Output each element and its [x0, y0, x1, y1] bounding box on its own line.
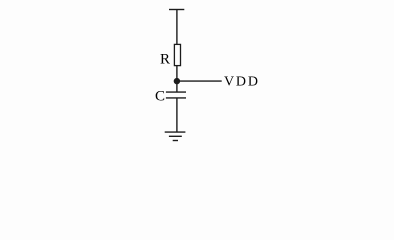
resistor R: [174, 44, 180, 65]
wire: capacitor bottom plate to ground: [176, 98, 178, 132]
node junction dot: [174, 78, 180, 84]
wire: terminal to resistor top: [176, 10, 178, 46]
capacitor C: [166, 92, 186, 98]
svg-text:R: R: [160, 51, 170, 67]
svg-text:VDD: VDD: [224, 75, 260, 90]
ground: [165, 132, 186, 140]
svg-text:C: C: [155, 89, 165, 105]
wire: node to VDD label: [177, 80, 222, 82]
wire: resistor bottom to capacitor top plate: [176, 66, 178, 93]
power rail terminal (top bar): [169, 9, 184, 11]
